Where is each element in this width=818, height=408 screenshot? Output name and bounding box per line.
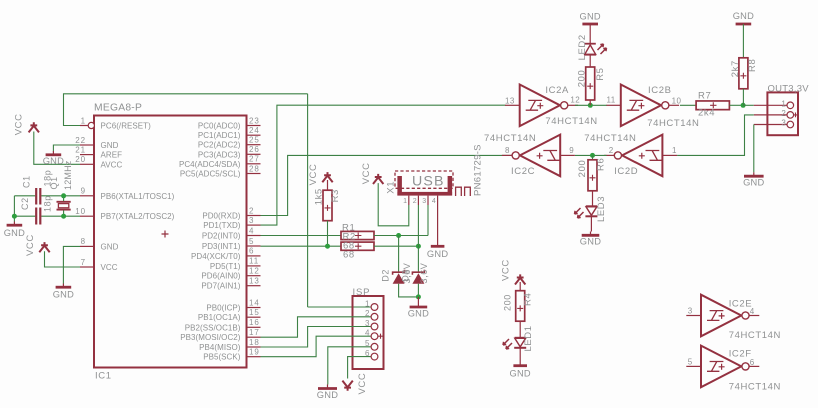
USB pin 1 stub xyxy=(408,196,410,205)
LED LED2 xyxy=(584,44,596,55)
svg-text:9: 9 xyxy=(81,187,86,196)
svg-text:74HCT14N: 74HCT14N xyxy=(545,116,597,127)
svg-text:R3: R3 xyxy=(330,189,341,202)
svg-text:PD4(XCK/T0): PD4(XCK/T0) xyxy=(191,252,241,261)
svg-text:9: 9 xyxy=(569,146,574,155)
svg-text:PD5(T1): PD5(T1) xyxy=(210,262,241,271)
svg-text:VCC: VCC xyxy=(14,113,25,135)
svg-text:11: 11 xyxy=(607,96,616,105)
svg-text:10: 10 xyxy=(75,207,86,216)
inverter IC2D 74HCT14N xyxy=(584,133,677,177)
svg-text:5: 5 xyxy=(688,358,693,367)
junction D- node xyxy=(416,244,421,249)
svg-text:3,6V: 3,6V xyxy=(419,263,429,284)
svg-text:2k7: 2k7 xyxy=(730,60,741,77)
wire pin22 GND wire xyxy=(53,145,80,152)
pin 12 PD6(AIN0) xyxy=(201,267,260,281)
svg-text:13: 13 xyxy=(505,97,515,106)
wire OUT pin2 to IC2D input xyxy=(677,115,754,155)
inverter IC2A 74HCT14N xyxy=(505,85,598,127)
svg-text:27: 27 xyxy=(249,155,260,164)
wire RESET to ISP pin 1 xyxy=(308,306,371,308)
lead VCC to R4 xyxy=(519,282,521,291)
svg-text:74HCT14N: 74HCT14N xyxy=(729,381,781,392)
pin 3 PD1(TXD) xyxy=(203,216,260,230)
svg-text:26: 26 xyxy=(249,145,260,154)
svg-text:LED1: LED1 xyxy=(523,325,534,351)
wire IC2C in to IC2D out xyxy=(575,154,607,156)
svg-text:74HCT14N: 74HCT14N xyxy=(584,133,636,144)
svg-text:3,6V: 3,6V xyxy=(402,263,412,284)
svg-text:IC2B: IC2B xyxy=(648,85,672,96)
ground below zener diodes xyxy=(408,297,429,319)
USB connector X1 shield outline xyxy=(395,171,453,188)
capacitor C2 xyxy=(36,208,40,225)
svg-text:200: 200 xyxy=(577,160,588,178)
svg-text:12: 12 xyxy=(570,96,580,105)
wire USB pin2 riser / D3 branch xyxy=(417,205,419,272)
ground below LED1 xyxy=(509,362,530,379)
pin 9 PB6(XTAL1/TOSC1) xyxy=(80,187,175,201)
supply VCC below ISP (down arrow) xyxy=(342,381,352,391)
svg-text:AVCC: AVCC xyxy=(101,160,123,169)
light arrows LED1 xyxy=(503,339,512,349)
svg-text:GND: GND xyxy=(53,289,74,299)
svg-text:5: 5 xyxy=(365,339,370,348)
wire node to OUT pin1 xyxy=(743,104,754,106)
svg-text:4: 4 xyxy=(432,198,436,205)
resistor R3 (1k5) xyxy=(323,190,332,221)
pin 8 GND xyxy=(80,237,119,251)
svg-text:24: 24 xyxy=(249,126,260,135)
pin 19 PB5(SCK) xyxy=(203,348,260,362)
svg-text:13: 13 xyxy=(249,277,260,286)
svg-text:18: 18 xyxy=(249,338,260,347)
svg-text:11: 11 xyxy=(249,257,259,266)
svg-text:PD2(INT0): PD2(INT0) xyxy=(202,232,241,241)
svg-text:C1: C1 xyxy=(22,175,32,188)
pin 26 PC3(ADC3) xyxy=(198,145,261,159)
svg-text:AREF: AREF xyxy=(101,151,123,160)
svg-text:20: 20 xyxy=(75,155,86,164)
svg-text:PD0(RXD): PD0(RXD) xyxy=(202,212,240,221)
svg-text:R6: R6 xyxy=(596,158,607,171)
svg-text:PB1(OC1A): PB1(OC1A) xyxy=(198,313,241,322)
connector ISP body xyxy=(353,296,384,369)
wire R3 to INT1 net xyxy=(327,221,329,247)
svg-text:PB0(ICP): PB0(ICP) xyxy=(206,304,240,313)
inverter IC2B 74HCT14N xyxy=(606,85,699,130)
svg-text:10: 10 xyxy=(672,96,682,105)
ISP pin 6 xyxy=(354,349,378,360)
svg-text:3: 3 xyxy=(365,319,370,328)
wire GND to R8 xyxy=(742,24,744,58)
svg-text:68: 68 xyxy=(343,250,355,261)
svg-text:8: 8 xyxy=(505,146,510,155)
resistor R8 (2k7) xyxy=(739,58,748,89)
crystal Q1 xyxy=(57,202,71,210)
ground near pin 22 xyxy=(43,151,64,166)
pin 23 PC0(ADC0) xyxy=(198,116,261,130)
pin 2 PD0(RXD) xyxy=(202,206,260,220)
ground USB pin 4 xyxy=(427,205,448,259)
svg-text:PC6(/RESET): PC6(/RESET) xyxy=(101,122,152,131)
pin 20 AVCC xyxy=(75,155,122,169)
svg-text:IC2C: IC2C xyxy=(511,166,535,177)
USB pin 2 stub xyxy=(417,196,419,205)
wire R1 to USB D+ xyxy=(374,235,428,237)
svg-text:GND: GND xyxy=(427,249,448,259)
svg-text:25: 25 xyxy=(249,136,260,145)
resistor R6 (200) xyxy=(588,160,597,191)
svg-text:1: 1 xyxy=(365,299,370,308)
svg-text:6: 6 xyxy=(750,358,755,367)
svg-text:2: 2 xyxy=(609,146,614,155)
resistor R4 (200) xyxy=(516,291,525,322)
ground below crystal caps xyxy=(4,222,25,238)
pin 28 PC5(ADC5/SCL) xyxy=(180,164,261,178)
svg-text:74HCT14N: 74HCT14N xyxy=(729,330,781,341)
OUT pin 2 xyxy=(754,109,794,118)
wire ISP pin6 to VCC xyxy=(348,357,354,379)
svg-text:74HCT14N: 74HCT14N xyxy=(647,118,699,129)
svg-text:2: 2 xyxy=(413,198,417,205)
light arrows LED3 xyxy=(575,208,584,218)
svg-text:R5: R5 xyxy=(595,67,606,80)
inverter IC2E 74HCT14N xyxy=(686,295,781,342)
svg-text:17: 17 xyxy=(249,328,260,337)
svg-text:6: 6 xyxy=(249,247,254,256)
svg-text:LED3: LED3 xyxy=(596,196,607,222)
svg-text:IC2D: IC2D xyxy=(614,166,638,177)
inverter IC2C 74HCT14N xyxy=(484,133,575,177)
svg-text:VCC: VCC xyxy=(357,373,368,395)
OUT origin cross xyxy=(793,113,798,118)
svg-text:VCC: VCC xyxy=(25,234,36,256)
wire MISO: pin18 to ISP pin3 xyxy=(261,327,355,348)
pin 16 PB2(SS/OC1B) xyxy=(185,318,261,332)
svg-text:PD6(AIN0): PD6(AIN0) xyxy=(201,272,240,281)
pin 1 PC6(/RESET) xyxy=(80,116,151,130)
supply VCC above R3 xyxy=(322,172,332,182)
USB connector X1 body xyxy=(397,176,452,196)
svg-text:6: 6 xyxy=(365,349,370,358)
svg-text:3: 3 xyxy=(688,307,693,316)
wire VBUS wire xyxy=(378,183,409,226)
supply VCC for USB VBUS xyxy=(373,174,383,184)
svg-text:GND: GND xyxy=(4,228,25,238)
pin 11 PD5(T1) xyxy=(210,257,261,271)
ISP origin cross xyxy=(378,334,383,339)
svg-text:19: 19 xyxy=(249,348,260,357)
wire MOSI: pin17 to ISP pin2 xyxy=(261,317,355,337)
svg-text:12: 12 xyxy=(249,267,260,276)
resistor R5 (200) xyxy=(586,67,595,100)
resistor R7 (2k4) xyxy=(696,101,729,110)
IC U1 MEGA8-P body xyxy=(94,116,247,368)
wire crystal top lead xyxy=(63,196,65,201)
pin 15 PB1(OC1A) xyxy=(198,308,261,322)
svg-text:GND: GND xyxy=(317,390,338,400)
capacitor C1 xyxy=(36,188,40,205)
svg-text:1k5: 1k5 xyxy=(314,188,325,205)
wire pin10 net to crystal xyxy=(41,215,80,217)
supply VCC above R4 xyxy=(515,274,525,284)
wire USB pin3 riser xyxy=(427,205,429,236)
lead R5 to node xyxy=(589,100,591,105)
lead R6 to LED3 xyxy=(592,191,594,206)
supply VCC near pin 7 xyxy=(39,242,49,252)
svg-text:D2: D2 xyxy=(381,269,391,282)
junction cap common / C2 node xyxy=(12,214,17,219)
wire R2 to USB D- xyxy=(374,245,418,247)
svg-text:PB3(MOSI/OC2): PB3(MOSI/OC2) xyxy=(180,333,241,342)
lead LED3 to GND xyxy=(590,217,592,232)
svg-text:PD3(INT1): PD3(INT1) xyxy=(202,242,241,251)
svg-text:1: 1 xyxy=(81,116,86,125)
junction R6 node xyxy=(590,153,595,158)
svg-text:22: 22 xyxy=(75,136,86,145)
svg-text:23: 23 xyxy=(249,116,260,125)
svg-text:1: 1 xyxy=(672,146,677,155)
junction R8/OUT node xyxy=(741,103,746,108)
svg-text:4: 4 xyxy=(365,329,370,338)
pin 4 PD2(INT0) xyxy=(202,226,261,240)
wire RESET net: pin1 left and up xyxy=(64,94,308,126)
wire D3 bottom lead xyxy=(417,284,419,297)
supply VCC top-left (AVCC) xyxy=(29,122,39,132)
junction zener GND node xyxy=(416,294,421,299)
ISP pin 4 xyxy=(354,329,378,340)
svg-text:15: 15 xyxy=(249,308,260,317)
svg-text:14: 14 xyxy=(249,298,260,307)
wire VCC to AVCC pin 20 xyxy=(34,132,80,165)
LED LED3 xyxy=(585,206,597,216)
pin 7 VCC xyxy=(80,258,118,272)
svg-text:GND: GND xyxy=(101,242,119,251)
ground below OUT connector xyxy=(743,172,764,187)
svg-text:1: 1 xyxy=(403,198,407,205)
svg-text:MEGA8-P: MEGA8-P xyxy=(94,103,142,114)
svg-text:200: 200 xyxy=(502,294,512,311)
pin 22 GND xyxy=(75,136,118,150)
svg-text:2k4: 2k4 xyxy=(698,107,715,118)
svg-text:OUT3,3V: OUT3,3V xyxy=(768,83,810,94)
zener diode D3 3,6V xyxy=(412,270,424,284)
svg-text:IC2E: IC2E xyxy=(729,298,753,309)
svg-text:21: 21 xyxy=(75,145,86,154)
wire VCC to pin 7 xyxy=(45,251,81,267)
junction R3/INT1 node xyxy=(325,244,330,249)
svg-text:3: 3 xyxy=(249,216,254,225)
svg-text:PN61729-S: PN61729-S xyxy=(473,144,484,196)
svg-text:PB5(SCK): PB5(SCK) xyxy=(203,353,241,362)
wire crystal bottom lead xyxy=(63,210,65,216)
svg-text:PC3(ADC3): PC3(ADC3) xyxy=(198,150,241,159)
svg-text:16: 16 xyxy=(249,318,260,327)
svg-text:IC2A: IC2A xyxy=(545,85,569,96)
wire IC2A out to IC2B in xyxy=(575,104,607,106)
svg-text:5: 5 xyxy=(249,237,254,246)
svg-text:IC1: IC1 xyxy=(95,371,112,382)
svg-text:PD7(AIN1): PD7(AIN1) xyxy=(201,282,240,291)
ground below ISP xyxy=(317,385,338,401)
wire PD2/INT0 to R1 xyxy=(261,235,342,237)
USB shield pins xyxy=(456,187,471,196)
svg-text:2: 2 xyxy=(249,206,254,215)
svg-text:8: 8 xyxy=(81,237,86,246)
svg-text:VCC: VCC xyxy=(308,164,319,186)
lead GND to LED2 xyxy=(589,24,591,44)
pin 24 PC1(ADC1) xyxy=(198,126,261,140)
wire D2 branch down xyxy=(398,236,400,272)
LED LED1 xyxy=(514,338,526,348)
svg-text:R8: R8 xyxy=(747,59,758,72)
USB pin 3 stub xyxy=(427,196,429,205)
svg-text:ISP: ISP xyxy=(353,287,371,298)
zener diode D2 3,6V xyxy=(393,270,405,284)
svg-text:GND: GND xyxy=(408,309,429,319)
svg-text:1: 1 xyxy=(781,100,786,109)
ISP pin 1 xyxy=(354,299,378,310)
svg-text:PC5(ADC5/SCL): PC5(ADC5/SCL) xyxy=(180,170,241,179)
pin 14 PB0(ICP) xyxy=(206,298,260,312)
svg-text:C2: C2 xyxy=(20,197,30,210)
wire R8 to node xyxy=(742,89,744,106)
svg-text:USB: USB xyxy=(412,173,445,189)
ISP pin 3 xyxy=(354,319,378,330)
ground above LED2 xyxy=(579,11,600,24)
pin 13 PD7(AIN1) xyxy=(201,277,260,291)
svg-text:PC0(ADC0): PC0(ADC0) xyxy=(198,122,241,131)
wire cap common down xyxy=(13,196,15,222)
ground below LED3 xyxy=(580,232,601,247)
svg-text:28: 28 xyxy=(249,164,260,173)
wire ISP pin5 to GND xyxy=(328,347,354,385)
pin 27 PC4(ADC4/SDA) xyxy=(179,155,261,169)
OUT pin 1 xyxy=(754,100,794,109)
svg-text:PB6(XTAL1/TOSC1): PB6(XTAL1/TOSC1) xyxy=(101,192,175,201)
pin 6 PD4(XCK/T0) xyxy=(191,247,260,261)
USB pin 4 stub xyxy=(437,196,439,205)
svg-text:GND: GND xyxy=(579,11,600,21)
wire PD3/INT1 to R2 xyxy=(261,245,342,247)
svg-text:PC1(ADC1): PC1(ADC1) xyxy=(198,131,241,140)
svg-text:2: 2 xyxy=(365,309,370,318)
wire TXD net: pin3 up to IC2A input xyxy=(261,105,506,225)
svg-text:Q1: Q1 xyxy=(49,176,59,189)
lead VCC to R3 xyxy=(327,180,329,191)
svg-text:GND: GND xyxy=(743,178,764,188)
svg-text:PD1(TXD): PD1(TXD) xyxy=(203,221,241,230)
connector OUT3,3V body xyxy=(767,92,798,135)
lead R4 to LED1 xyxy=(519,321,521,338)
OUT pin 3 xyxy=(754,119,794,128)
svg-text:VCC: VCC xyxy=(361,162,372,184)
ground below pin 8 xyxy=(53,284,74,300)
svg-text:PB2(SS/OC1B): PB2(SS/OC1B) xyxy=(185,323,241,332)
svg-text:7: 7 xyxy=(81,258,86,267)
svg-text:18p: 18p xyxy=(43,195,53,212)
inverter IC2F 74HCT14N xyxy=(686,346,781,393)
wire zener commons to GND node xyxy=(399,284,419,297)
pin 5 PD3(INT1) xyxy=(202,237,261,251)
ISP pin 5 xyxy=(354,339,378,350)
wire C1 left lead xyxy=(14,195,35,197)
svg-text:PC2(ADC2): PC2(ADC2) xyxy=(198,141,241,150)
svg-text:4: 4 xyxy=(750,307,755,316)
svg-text:GND: GND xyxy=(101,141,119,150)
svg-text:74HCT14N: 74HCT14N xyxy=(484,133,536,144)
wire RXD net: pin2 up to IC2C output xyxy=(261,155,513,215)
IC1 origin cross xyxy=(162,231,169,238)
resistor R1 (68) xyxy=(341,231,374,239)
svg-text:VCC: VCC xyxy=(501,259,512,281)
lead LED2 to R5 xyxy=(589,55,591,67)
pin 18 PB4(MISO) xyxy=(199,338,260,352)
svg-text:VCC: VCC xyxy=(101,263,118,272)
ground above R8 xyxy=(733,11,754,24)
wire pin8 to GND xyxy=(63,246,80,283)
svg-text:GND: GND xyxy=(580,236,601,246)
ISP pin 2 xyxy=(354,309,378,320)
wire C2 left lead xyxy=(14,215,35,217)
svg-text:GND: GND xyxy=(509,369,530,379)
svg-text:PB7(XTAL2/TOSC2): PB7(XTAL2/TOSC2) xyxy=(101,212,175,221)
svg-text:PB4(MISO): PB4(MISO) xyxy=(199,343,241,352)
junction crystal/pin10 node xyxy=(61,214,66,219)
wire IC2B out to R7 xyxy=(680,104,696,106)
svg-text:4: 4 xyxy=(249,226,254,235)
svg-text:R4: R4 xyxy=(523,293,534,306)
svg-text:2: 2 xyxy=(781,109,786,118)
pin 21 AREF xyxy=(75,145,122,159)
pin 25 PC2(ADC2) xyxy=(198,136,261,150)
wire pin9 net to crystal xyxy=(41,195,80,197)
pin 10 PB7(XTAL2/TOSC2) xyxy=(75,207,174,221)
svg-text:X1: X1 xyxy=(386,181,397,194)
pin 17 PB3(MOSI/OC2) xyxy=(180,328,260,342)
junction LED2/R5 node xyxy=(588,103,593,108)
svg-text:200: 200 xyxy=(577,70,588,88)
resistor R2 (68) xyxy=(341,242,374,250)
wire R7 to OUT node xyxy=(729,104,743,106)
wire node to R6 xyxy=(592,155,594,159)
svg-text:GND: GND xyxy=(733,11,754,21)
svg-text:3: 3 xyxy=(781,119,786,128)
lead LED1 to GND xyxy=(519,348,521,362)
svg-text:PC4(ADC4/SDA): PC4(ADC4/SDA) xyxy=(179,160,241,169)
svg-text:GND: GND xyxy=(43,156,64,166)
wire RESET net vertical down xyxy=(307,94,309,307)
svg-text:IC2F: IC2F xyxy=(729,348,752,359)
svg-text:LED2: LED2 xyxy=(577,34,588,60)
svg-text:12MHz: 12MHz xyxy=(63,160,73,190)
junction crystal/pin9 node xyxy=(61,193,66,198)
svg-text:3: 3 xyxy=(422,198,426,205)
junction D2 branch node xyxy=(396,233,401,238)
light arrows LED2 xyxy=(598,44,607,54)
svg-text:R7: R7 xyxy=(698,91,711,102)
wire SCK: pin19 to ISP pin4 xyxy=(261,336,355,357)
wire OUT pin3 to GND xyxy=(753,125,755,173)
